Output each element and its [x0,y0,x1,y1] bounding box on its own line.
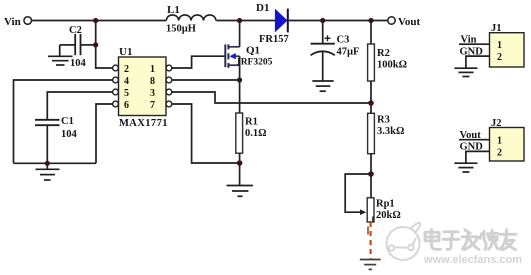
label J1 Vin [461,34,477,45]
svg-text:D1: D1 [256,2,269,14]
pin number 4 [124,76,129,87]
svg-text:U1: U1 [119,46,132,58]
ground J2 [454,163,477,172]
wire pin3 to feedback node [172,92,371,103]
svg-text:R2: R2 [377,48,390,59]
label C1 [61,116,74,127]
pin number J2-1 [497,136,502,147]
junction C1 ground [45,161,50,166]
label Rp1 value [376,210,401,221]
wire L1 to D1 [216,20,275,22]
label MAX1771 [119,118,168,129]
svg-text:2: 2 [124,64,129,75]
label R2 [377,48,390,59]
node Vin terminal [4,16,32,28]
svg-text:6: 6 [124,100,129,111]
svg-text:C2: C2 [69,25,82,36]
svg-text:100kΩ: 100kΩ [377,60,407,71]
wire pin5 to C1 [47,92,112,119]
wire junction to L1 [96,20,167,22]
label J1 [491,23,502,34]
resistor R1 [236,113,243,153]
watermark text dianzifashaoyou [425,229,516,250]
label IRF3205 [237,58,273,68]
label J1 GND [460,46,484,57]
svg-text:1: 1 [497,136,502,147]
svg-text:Q1: Q1 [246,45,260,57]
svg-text:Vout: Vout [460,130,482,141]
svg-text:47µF: 47µF [337,47,360,58]
wire C2 column down to pin2 [96,21,113,69]
label R3 value [377,126,404,137]
wire R2 junction to Vout [371,20,388,22]
label R3 [377,115,390,126]
junction top C3 [320,18,325,23]
capacitor C3 [311,21,335,81]
connector J2 body [490,128,525,162]
svg-text:7: 7 [150,100,155,111]
ground J1 [454,68,477,76]
svg-text:Vin: Vin [461,34,477,45]
wire pin7 to ground rail [172,104,240,163]
watermark url www.elecfans.com [423,254,522,266]
label R1 [245,117,258,128]
svg-text:2: 2 [497,52,502,63]
svg-text:IRF3205: IRF3205 [237,58,273,68]
svg-text:R1: R1 [245,117,258,128]
svg-text:1: 1 [497,40,502,51]
label C2 [69,25,82,36]
svg-text:www.elecfans.com: www.elecfans.com [423,254,522,266]
svg-text:GND: GND [460,46,484,57]
svg-text:J2: J2 [491,118,502,129]
wire Rp1 top [370,174,372,198]
pin number 5 [124,88,129,99]
diode D1 [275,9,287,33]
potentiometer Rp1 [367,198,374,222]
svg-text:3.3kΩ: 3.3kΩ [377,126,404,137]
pin number 1 [150,64,155,75]
pin number 7 [150,100,155,111]
capacitor C2 [60,34,96,55]
pin number 8 [150,76,155,87]
pin circles U1 left [113,65,119,107]
wire R3 bottom [370,154,372,174]
svg-text:8: 8 [150,76,155,87]
pin number 6 [124,100,129,111]
svg-text:Vout: Vout [398,16,421,28]
label J2 [491,118,502,129]
svg-text:104: 104 [70,58,87,69]
label 150uH [166,24,196,35]
ground under R1 [227,163,253,196]
pin number 2 [124,64,129,75]
svg-text:MAX1771: MAX1771 [119,118,168,129]
pin number J2-2 [497,147,502,158]
label J2 Vout [460,130,482,141]
ground under Rp1 [360,260,381,270]
resistor R2 [368,44,375,81]
wire R2 top [370,21,372,45]
wire pin6 down [96,104,113,163]
wire pin8 to source junction [172,79,240,81]
label R1 value [245,128,267,139]
svg-text:L1: L1 [167,4,180,16]
junction top Q1 drain [237,18,242,23]
wire C3 junction to R2 junction [323,20,371,22]
label Q1 [246,45,260,57]
label Rp1 [376,199,395,210]
wire Vin to junction [31,20,96,22]
label C2 104 [70,58,87,69]
svg-text:2: 2 [497,147,502,158]
svg-text:R3: R3 [377,115,390,126]
label FR157 [259,34,289,45]
svg-text:C1: C1 [61,116,74,127]
ground left rail [36,163,60,180]
wire pin1 to Q1 gate [172,56,225,68]
wire J1 pin1 [459,43,490,45]
label R2 value [377,60,407,71]
svg-text:Vin: Vin [4,16,21,28]
pin number 3 [150,88,155,99]
svg-text:1: 1 [150,64,155,75]
wire Rp1 wiper bracket [345,174,371,212]
svg-text:150µH: 150µH [166,24,196,35]
wire bottom left rail [14,162,97,164]
ground for C2 [48,45,73,65]
label C1 104 [61,129,78,140]
Q1 body arrow [229,53,235,59]
svg-text:5: 5 [124,88,129,99]
label C3 plus [325,35,331,41]
wire J2 pin2 [466,151,490,162]
svg-text:4: 4 [124,76,129,87]
label D1 [256,2,269,14]
svg-text:Rp1: Rp1 [376,199,395,210]
junction top C2 [93,18,98,23]
connector J1 body [490,33,525,67]
svg-text:0.1Ω: 0.1Ω [245,128,267,139]
wire D1 to C3 junction [289,20,323,22]
svg-text:FR157: FR157 [259,34,289,45]
inductor L1 [166,15,216,21]
pin number J1-2 [497,52,502,63]
junction C2 right [93,42,98,47]
wire J1 pin2 [466,56,490,68]
junction FB node [368,100,374,106]
junction pin8 source R1 [237,77,242,82]
label C3 value [337,47,360,58]
wire Rp1 to ground dashed [368,217,373,259]
svg-text:20kΩ: 20kΩ [376,210,401,221]
junction top R2 [368,18,373,23]
junction R1 ground [237,160,243,166]
wire pin4 to left column [14,80,113,163]
svg-text:104: 104 [61,129,78,140]
pin circles U1 right [166,65,172,107]
node Vout terminal [388,16,421,28]
wire R1 bottom [239,153,241,163]
watermark logo circle [387,223,421,260]
svg-text:J1: J1 [491,23,502,34]
label C3 [337,35,350,46]
pin number J1-1 [497,40,502,51]
label U1 [119,46,132,58]
svg-text:C3: C3 [337,35,350,46]
Rp1 wiper arrow [360,209,366,215]
op-amp U1 MAX1771 body [119,57,167,116]
wire R2 bottom to FB node [370,81,372,113]
label L1 [167,4,180,16]
resistor R3 [368,113,375,153]
capacitor C1 [35,120,60,164]
ground under C3 [312,81,333,91]
wire source junction to R1 [239,80,241,113]
transistor Q1 [225,21,239,81]
wire J2 pin1 [459,139,490,141]
svg-text:3: 3 [150,88,155,99]
label J2 GND [460,142,484,153]
junction R3 Rp1 [368,171,374,177]
svg-text:GND: GND [460,142,484,153]
